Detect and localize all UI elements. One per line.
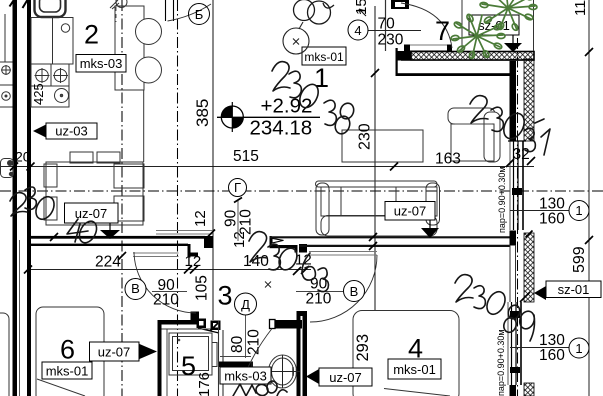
kitchen top door arc	[168, 4, 212, 21]
neighbour sink	[1, 159, 14, 178]
svg-text:пар=0.90+0.30м: пар=0.90+0.30м	[496, 329, 506, 396]
svg-text:210: 210	[306, 291, 332, 308]
tick x589 y52	[585, 48, 593, 56]
svg-text:80: 80	[229, 335, 246, 353]
label mks-03 bath	[220, 367, 271, 384]
sofa seat	[321, 216, 437, 237]
svg-text:176: 176	[196, 372, 213, 396]
svg-text:uz-07: uz-07	[394, 204, 427, 219]
ticks y269 line	[24, 266, 309, 276]
room4 left wall	[303, 311, 308, 396]
living/room4 wall line lower	[299, 245, 510, 247]
scrawl 230-31 top right	[470, 96, 550, 155]
level symbol	[217, 102, 320, 132]
label uz-07 room4 + arrow	[306, 368, 372, 386]
axis line vertical x177.5	[177, 0, 179, 396]
scrawl 230-63 hall	[249, 232, 328, 292]
svg-text:1: 1	[575, 203, 582, 218]
svg-text:Д: Д	[241, 297, 250, 312]
neighbour burner	[1, 65, 11, 75]
top-right wall: solid start of hatch band	[397, 51, 412, 61]
tick hatch top y234	[526, 231, 533, 238]
fridge circle	[55, 89, 69, 103]
label sz-01 top + arrow	[469, 15, 522, 52]
hatched exterior wall right bottom	[524, 383, 534, 396]
label uz-07 kitchen + arrow	[65, 203, 121, 239]
wall left A inner face	[19, 240, 21, 396]
svg-text:2: 2	[84, 20, 99, 50]
room5 left wall	[158, 320, 162, 396]
right wall upper black bar	[510, 59, 517, 141]
axis line vertical right wall x517.5	[517, 38, 519, 396]
tick x213 wall	[207, 230, 215, 238]
kitchen sink outer	[35, 0, 66, 17]
tick x589 y240	[585, 236, 593, 244]
washing machine	[169, 333, 212, 375]
svg-text:sz-01: sz-01	[558, 282, 590, 297]
corridor wall band 1	[31, 236, 205, 239]
svg-text:150: 150	[353, 0, 370, 15]
svg-text:1: 1	[314, 63, 329, 93]
svg-text:210: 210	[246, 329, 263, 355]
neighbour fridge circle	[2, 92, 11, 101]
svg-text:105: 105	[194, 275, 211, 301]
axis line horizontal Г	[0, 190, 603, 192]
circle Д	[235, 293, 257, 315]
svg-text:163: 163	[435, 151, 461, 168]
W2 bottom mark	[510, 367, 520, 373]
burner 1	[35, 68, 50, 83]
room5 door jamb left	[197, 319, 207, 329]
scrawl 230-89 bottom right	[455, 275, 537, 341]
sofa cushion lines	[340, 187, 342, 216]
bathroom7 left wall line	[385, 0, 387, 51]
svg-text:293: 293	[354, 334, 372, 362]
kitchen sink bowl	[40, 0, 61, 12]
bed room4 fold line	[384, 389, 450, 396]
sill lines above corridor wall	[156, 230, 213, 232]
svg-text:uz-07: uz-07	[329, 370, 362, 385]
svg-text:224: 224	[95, 254, 121, 271]
living/room4 wall line upper	[270, 236, 513, 238]
svg-text:160: 160	[539, 211, 565, 228]
svg-text:12: 12	[185, 253, 202, 270]
svg-text:uz-03: uz-03	[55, 124, 88, 139]
top-right interior wall vertical line	[396, 48, 398, 76]
ticks y166 line	[10, 157, 535, 171]
hall partition lower band thick	[270, 245, 298, 248]
wall left B	[27, 0, 31, 396]
svg-text:385: 385	[193, 99, 212, 127]
kitchen chair right 2	[114, 196, 144, 221]
kitchen chair top 1	[70, 152, 93, 163]
kitchen counter	[31, 18, 73, 65]
bed room6	[36, 307, 104, 396]
svg-text:140: 140	[243, 253, 269, 270]
label uz-07 room6 + arrow	[90, 342, 158, 361]
stove box	[31, 64, 69, 107]
corridor wall band 2	[31, 244, 188, 246]
W1 top cap	[508, 140, 526, 142]
label mks-01 top	[302, 47, 346, 65]
wall top tick A	[10, 0, 15, 7]
kitchen top door leaf	[165, 0, 167, 21]
svg-text:7: 7	[435, 16, 450, 46]
svg-text:Г: Г	[234, 180, 241, 195]
door B-right arc	[310, 255, 377, 322]
svg-text:sz-01: sz-01	[478, 18, 510, 33]
hall partition taper triangle	[272, 238, 284, 243]
bed neighbour left	[0, 313, 9, 396]
svg-text:5: 5	[181, 351, 196, 381]
svg-text:515: 515	[233, 148, 259, 165]
label uz-07 living + arrow	[385, 202, 439, 239]
fixture room1 scribble cloud	[294, 0, 335, 24]
room7 door hinge block	[391, 0, 409, 9]
svg-text:599: 599	[571, 246, 588, 273]
wall stub x188	[188, 244, 191, 258]
stove divider	[50, 64, 52, 86]
neighbour unit counter line	[4, 14, 6, 62]
hatch bottom edge line	[401, 60, 524, 62]
hall right wall lower	[297, 316, 301, 396]
tick room5 door	[210, 323, 218, 331]
svg-text:6: 6	[60, 335, 75, 365]
svg-text:12: 12	[192, 210, 209, 227]
axis line vertical x122	[121, 0, 123, 396]
svg-text:210: 210	[153, 292, 179, 309]
W2 mullion	[510, 311, 520, 318]
room5 right wall lines	[218, 321, 220, 396]
svg-text:230: 230	[357, 123, 374, 150]
bathroom top wall jamb	[270, 320, 276, 329]
circle Г	[229, 179, 247, 197]
kitchen chair left 1	[44, 164, 57, 187]
circle 4	[348, 20, 368, 40]
door B-right sill lines	[309, 251, 377, 253]
dining table top	[115, 6, 144, 90]
svg-text:uz-07: uz-07	[98, 345, 131, 360]
balcony door sill	[406, 44, 452, 46]
circle В hall	[344, 281, 365, 302]
tick corridor x54	[50, 233, 58, 241]
label sz-01 right + arrow	[534, 281, 601, 300]
kitchen chair right 1	[114, 164, 144, 188]
dining chair circle 2	[136, 57, 162, 83]
right page dimension line x589	[588, 0, 590, 396]
wall left A	[13, 0, 18, 396]
hatched exterior wall right mid	[524, 233, 534, 302]
hall partition step down	[295, 245, 298, 253]
svg-text:3: 3	[218, 281, 233, 311]
circle В room6	[125, 279, 146, 300]
balcony door jamb left	[404, 45, 410, 52]
hall partition jamb	[299, 244, 307, 253]
room5 wall notch	[191, 312, 200, 322]
svg-text:160: 160	[539, 347, 565, 364]
hatched exterior wall top	[411, 52, 534, 61]
WC door opening line	[251, 362, 253, 368]
room5 door leaf	[198, 328, 219, 333]
svg-text:mks-03: mks-03	[80, 56, 123, 71]
svg-text:111: 111	[572, 0, 589, 16]
burner 2	[53, 68, 68, 83]
svg-text:mks-01: mks-01	[393, 362, 436, 377]
dining chair circle 1	[136, 19, 162, 45]
svg-text:Б: Б	[195, 7, 204, 22]
kitchen chair top 2	[97, 152, 120, 163]
sofa body outline	[321, 187, 437, 216]
armchair body	[451, 124, 494, 161]
kitchen counter edge line	[143, 90, 145, 162]
neighbour stove lines	[0, 61, 13, 63]
svg-text:32: 32	[513, 146, 530, 163]
plant burst 2	[451, 13, 505, 59]
short dashed line x116	[115, 0, 117, 22]
bed room4	[353, 311, 459, 396]
right wall bottom black bar	[510, 385, 517, 396]
W1 mullion	[512, 188, 522, 195]
scrawl 230-38 living	[272, 62, 356, 136]
scrawl zigzag bottom	[233, 380, 287, 396]
balcony door jamb right	[447, 45, 452, 52]
kitchen table	[46, 162, 143, 225]
plant burst 1	[480, 0, 537, 31]
svg-text:пар=0.90+0.30м: пар=0.90+0.30м	[497, 166, 507, 233]
svg-text:20: 20	[15, 149, 31, 165]
room5 inner face lines	[166, 329, 168, 396]
bathroom top wall	[273, 320, 302, 329]
sofa arm left	[316, 183, 329, 235]
sofa arm right	[426, 183, 440, 225]
right wall mid black bar	[510, 231, 517, 246]
label mks-03 kitchen	[76, 55, 126, 73]
WC partition band	[219, 362, 253, 368]
tick door B-left	[118, 252, 126, 260]
ticks x375 line	[369, 69, 379, 250]
counter divider	[52, 18, 54, 65]
wall top tick B	[23, 0, 29, 8]
coffee table	[342, 130, 423, 162]
room5 door jamb right	[211, 321, 221, 331]
circle 1 upper	[569, 201, 589, 221]
svg-text:mks-01: mks-01	[46, 364, 89, 379]
scrawl 230-40 kitchen	[10, 187, 100, 246]
circle Б	[189, 4, 210, 25]
room5 top wall	[158, 320, 197, 325]
corridor dimension line y269	[27, 269, 311, 271]
kitchen chair left 2	[44, 197, 57, 220]
vertical line x375 (wall/dim)	[374, 6, 376, 311]
door B-left arc	[134, 252, 196, 313]
leader arrow near 150	[359, 9, 366, 16]
interior dimension line y166	[0, 166, 534, 168]
door B-left sill lines	[133, 252, 179, 254]
WC door arc	[241, 329, 272, 385]
svg-text:В: В	[131, 281, 140, 296]
armchair back	[448, 108, 495, 124]
living top wall line	[396, 73, 513, 76]
svg-text:В: В	[350, 284, 359, 299]
svg-text:1: 1	[575, 341, 582, 356]
circle 1 lower	[569, 338, 589, 358]
label mks-01 room4	[388, 359, 441, 379]
hatched exterior wall right upper	[524, 59, 534, 141]
svg-text:mks-01: mks-01	[304, 50, 344, 64]
fixture room1 lamp circle with x	[283, 22, 309, 54]
bed room6 fold line	[37, 379, 85, 396]
sofa back	[316, 181, 438, 187]
room4 left wall cap	[297, 311, 308, 316]
label mks-01 room6	[42, 362, 92, 379]
washbasin	[269, 355, 297, 388]
svg-text:230: 230	[378, 32, 404, 49]
balcony right edge line	[533, 0, 535, 51]
balcony left line	[461, 0, 463, 51]
svg-text:70: 70	[378, 16, 396, 33]
svg-text:210: 210	[238, 209, 255, 235]
counter tap circle	[61, 24, 69, 32]
label uz-03 + arrow	[33, 123, 97, 139]
hall partition end cap	[270, 236, 272, 248]
svg-text:425: 425	[31, 83, 46, 105]
vertical line x213 (385 dim)	[212, 0, 214, 320]
svg-text:uz-07: uz-07	[75, 206, 108, 221]
cross mark hall	[265, 282, 271, 288]
svg-text:+2.92: +2.92	[261, 95, 313, 118]
armchair side	[484, 112, 500, 162]
tick sz01 right wall	[520, 292, 530, 302]
fixture kitchen top	[110, 0, 127, 9]
svg-text:234.18: 234.18	[250, 117, 313, 140]
wall step piece	[190, 253, 198, 257]
room7 door arc	[401, 3, 452, 48]
corridor wall step corner	[204, 236, 213, 248]
svg-text:mks-03: mks-03	[224, 369, 267, 384]
svg-text:4: 4	[354, 23, 361, 38]
